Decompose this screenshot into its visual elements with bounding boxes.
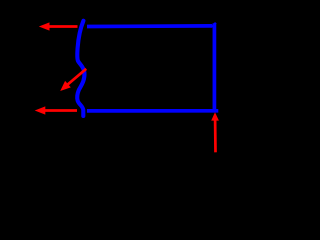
top-right corner tick (212, 23, 216, 27)
top-left force arrow (red, pointing left) (39, 22, 78, 30)
bottom-right force arrow (red, pointing up) (211, 112, 219, 152)
wavy cut line (blue, left side) (77, 21, 84, 116)
bottom-left force arrow (red, pointing left) (35, 106, 77, 114)
middle diagonal force arrow (red, pointing down-left) (60, 69, 86, 91)
right edge of section (blue) (213, 23, 217, 111)
bottom edge of section (blue) (87, 109, 218, 113)
top edge of section (blue) (87, 24, 212, 28)
